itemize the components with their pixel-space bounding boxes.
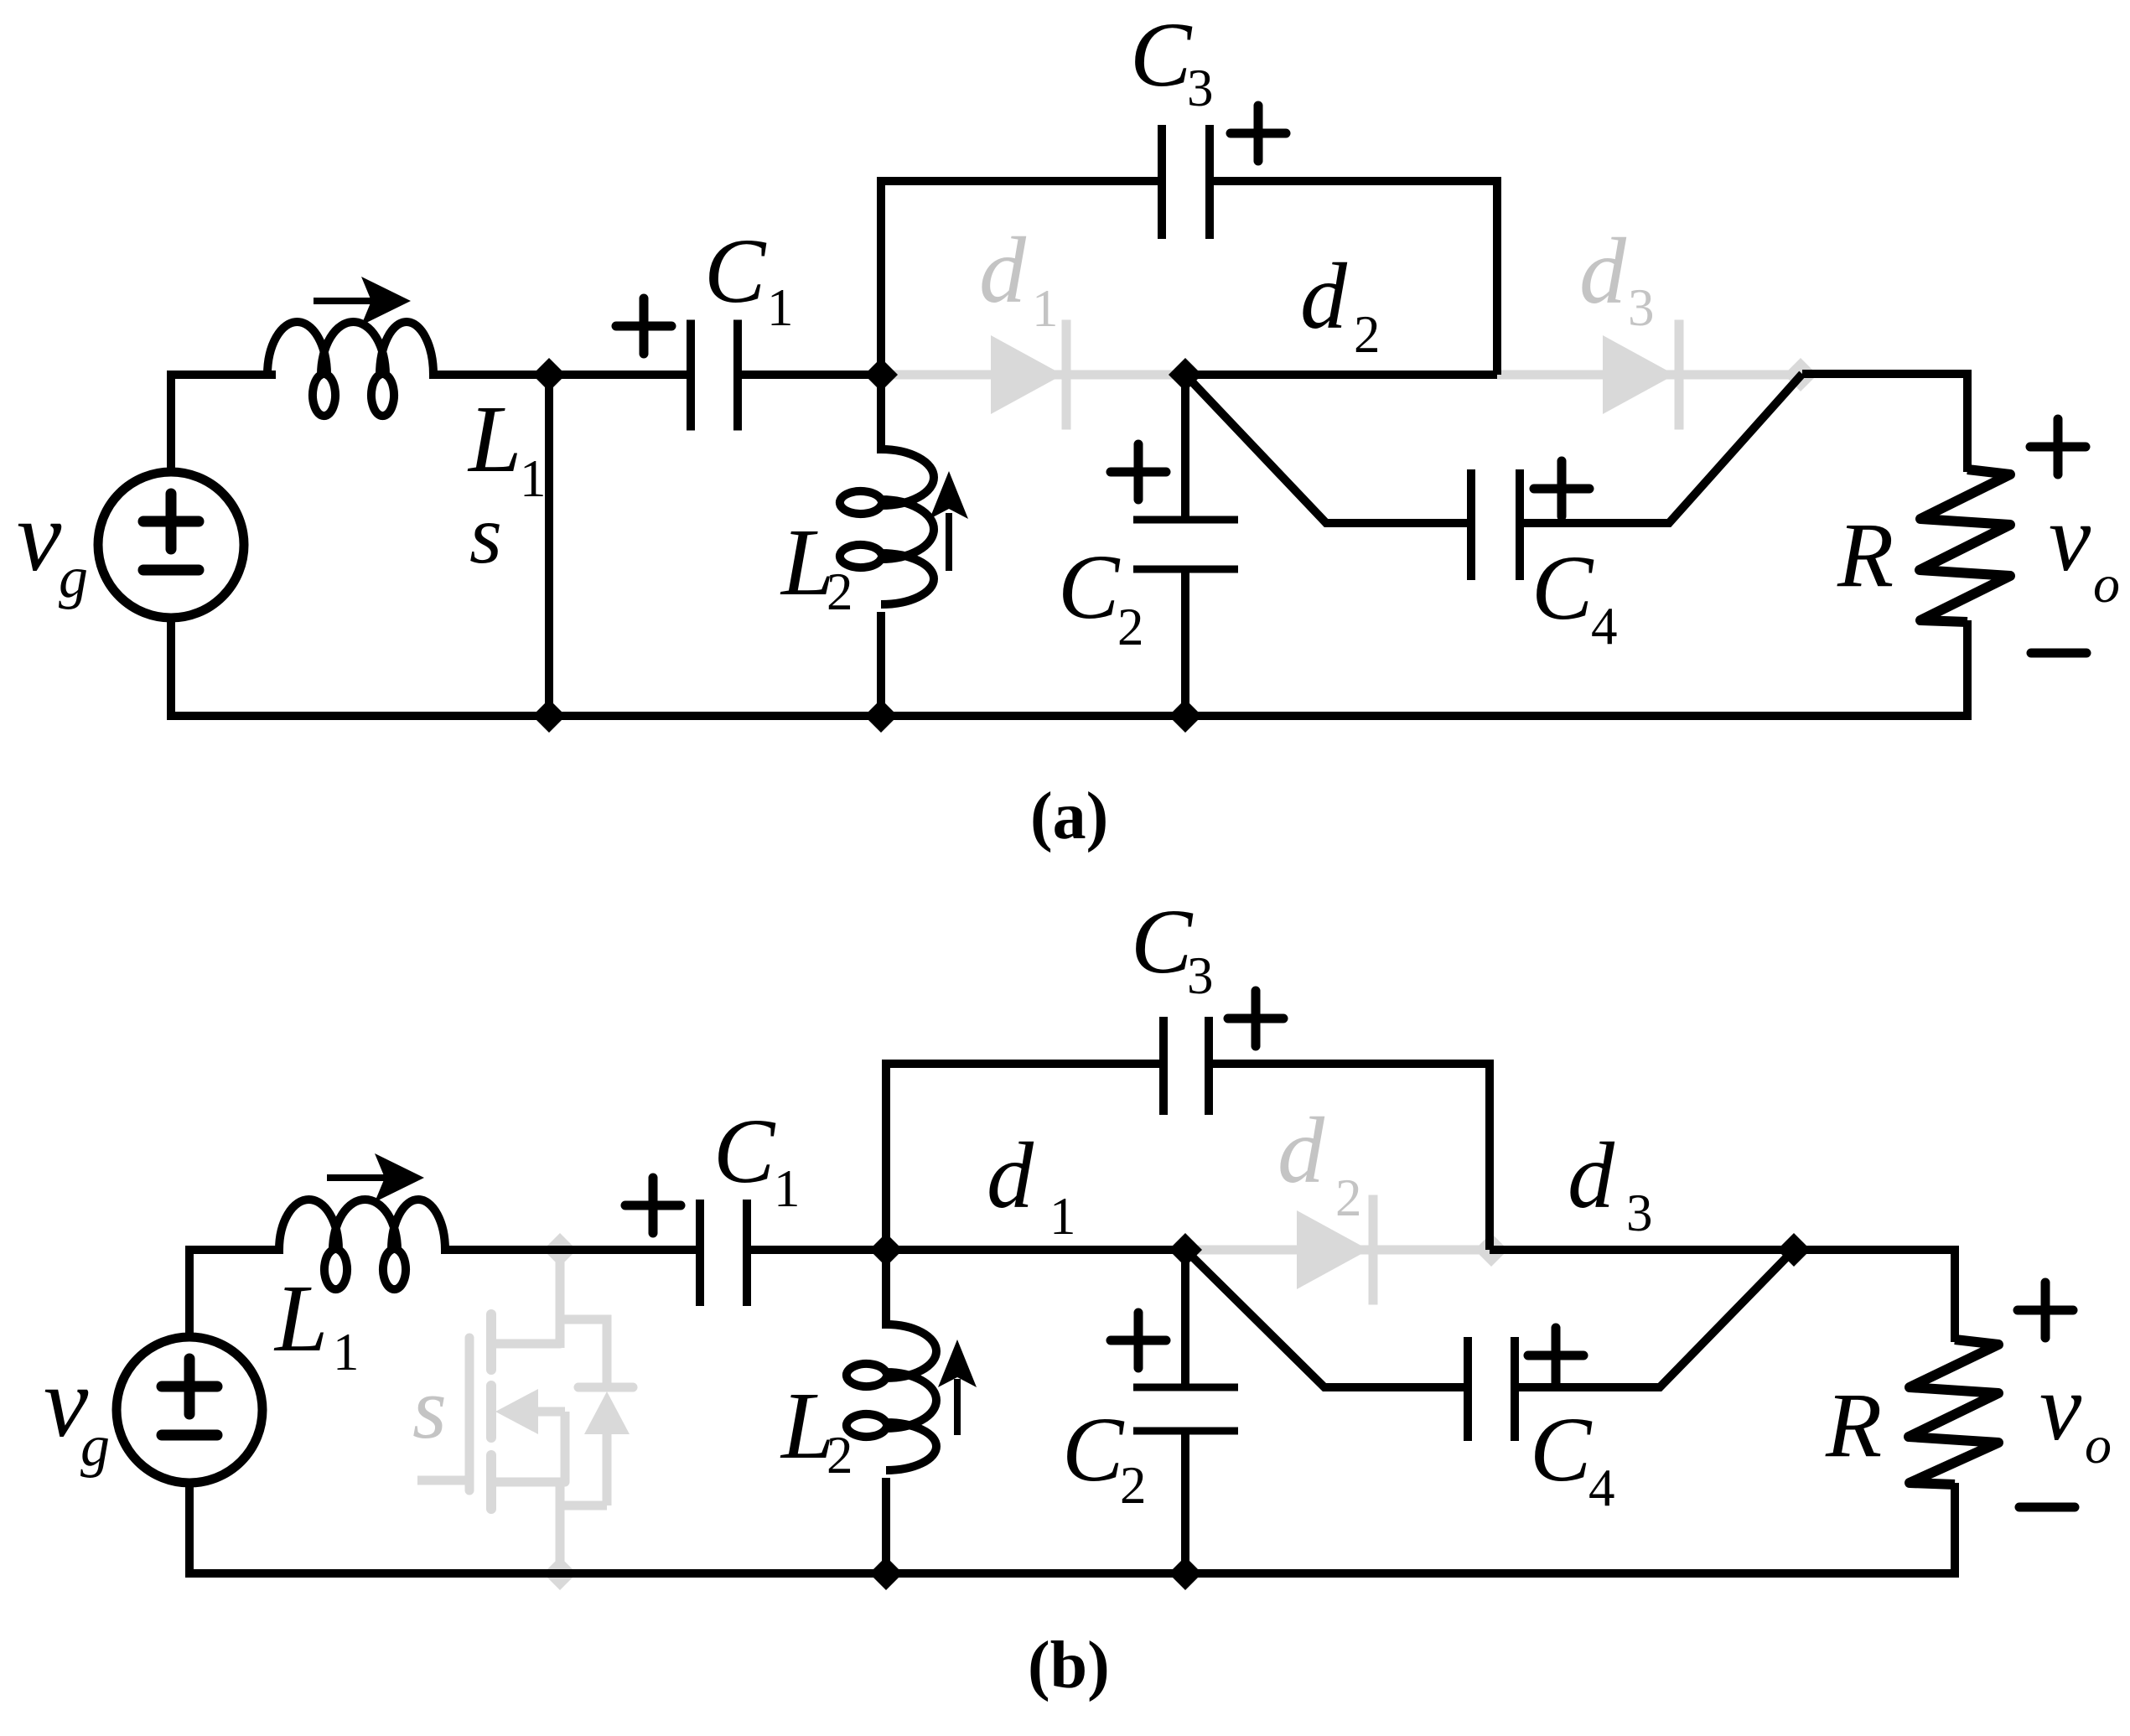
svg-text:C: C xyxy=(1058,536,1121,638)
svg-text:C: C xyxy=(1130,3,1193,106)
svg-text:C: C xyxy=(1062,1398,1125,1500)
svg-text:1: 1 xyxy=(333,1323,360,1381)
svg-text:1: 1 xyxy=(774,1159,801,1218)
svg-text:3: 3 xyxy=(1187,59,1214,117)
svg-text:v: v xyxy=(17,480,62,592)
svg-text:v: v xyxy=(2039,1355,2082,1460)
svg-text:1: 1 xyxy=(1032,279,1059,338)
svg-text:R: R xyxy=(1825,1374,1882,1476)
svg-text:4: 4 xyxy=(1588,1459,1615,1517)
svg-text:R: R xyxy=(1837,504,1894,606)
svg-text:g: g xyxy=(80,1414,110,1479)
svg-text:d: d xyxy=(987,1124,1034,1228)
svg-text:(a): (a) xyxy=(1030,780,1108,853)
svg-text:g: g xyxy=(59,546,88,610)
svg-text:d: d xyxy=(1568,1124,1615,1228)
svg-text:1: 1 xyxy=(520,449,547,508)
svg-text:2: 2 xyxy=(827,562,853,621)
svg-text:C: C xyxy=(1530,1398,1593,1500)
svg-text:2: 2 xyxy=(1354,305,1381,364)
svg-text:C: C xyxy=(1131,890,1194,992)
svg-text:s: s xyxy=(469,488,502,581)
svg-text:(b): (b) xyxy=(1028,1629,1110,1702)
svg-text:s: s xyxy=(412,1359,447,1457)
svg-text:2: 2 xyxy=(827,1426,853,1485)
svg-text:C: C xyxy=(713,1100,776,1202)
svg-text:3: 3 xyxy=(1626,1184,1653,1242)
svg-text:2: 2 xyxy=(1335,1169,1362,1227)
svg-text:C: C xyxy=(1531,536,1594,639)
svg-text:d: d xyxy=(1579,220,1627,324)
svg-text:d: d xyxy=(1300,245,1348,349)
svg-text:C: C xyxy=(704,220,767,322)
svg-text:2: 2 xyxy=(1117,598,1144,656)
svg-text:1: 1 xyxy=(1049,1187,1076,1246)
svg-text:d: d xyxy=(979,219,1027,323)
svg-text:1: 1 xyxy=(767,278,794,337)
svg-text:4: 4 xyxy=(1591,597,1618,656)
svg-text:v: v xyxy=(2049,486,2091,591)
svg-text:3: 3 xyxy=(1187,946,1214,1005)
svg-text:o: o xyxy=(2085,1415,2112,1474)
svg-text:2: 2 xyxy=(1120,1456,1147,1515)
svg-text:o: o xyxy=(2093,554,2120,614)
svg-text:d: d xyxy=(1277,1099,1325,1203)
svg-text:3: 3 xyxy=(1628,278,1655,337)
svg-text:L: L xyxy=(467,386,521,492)
svg-text:L: L xyxy=(273,1265,328,1371)
